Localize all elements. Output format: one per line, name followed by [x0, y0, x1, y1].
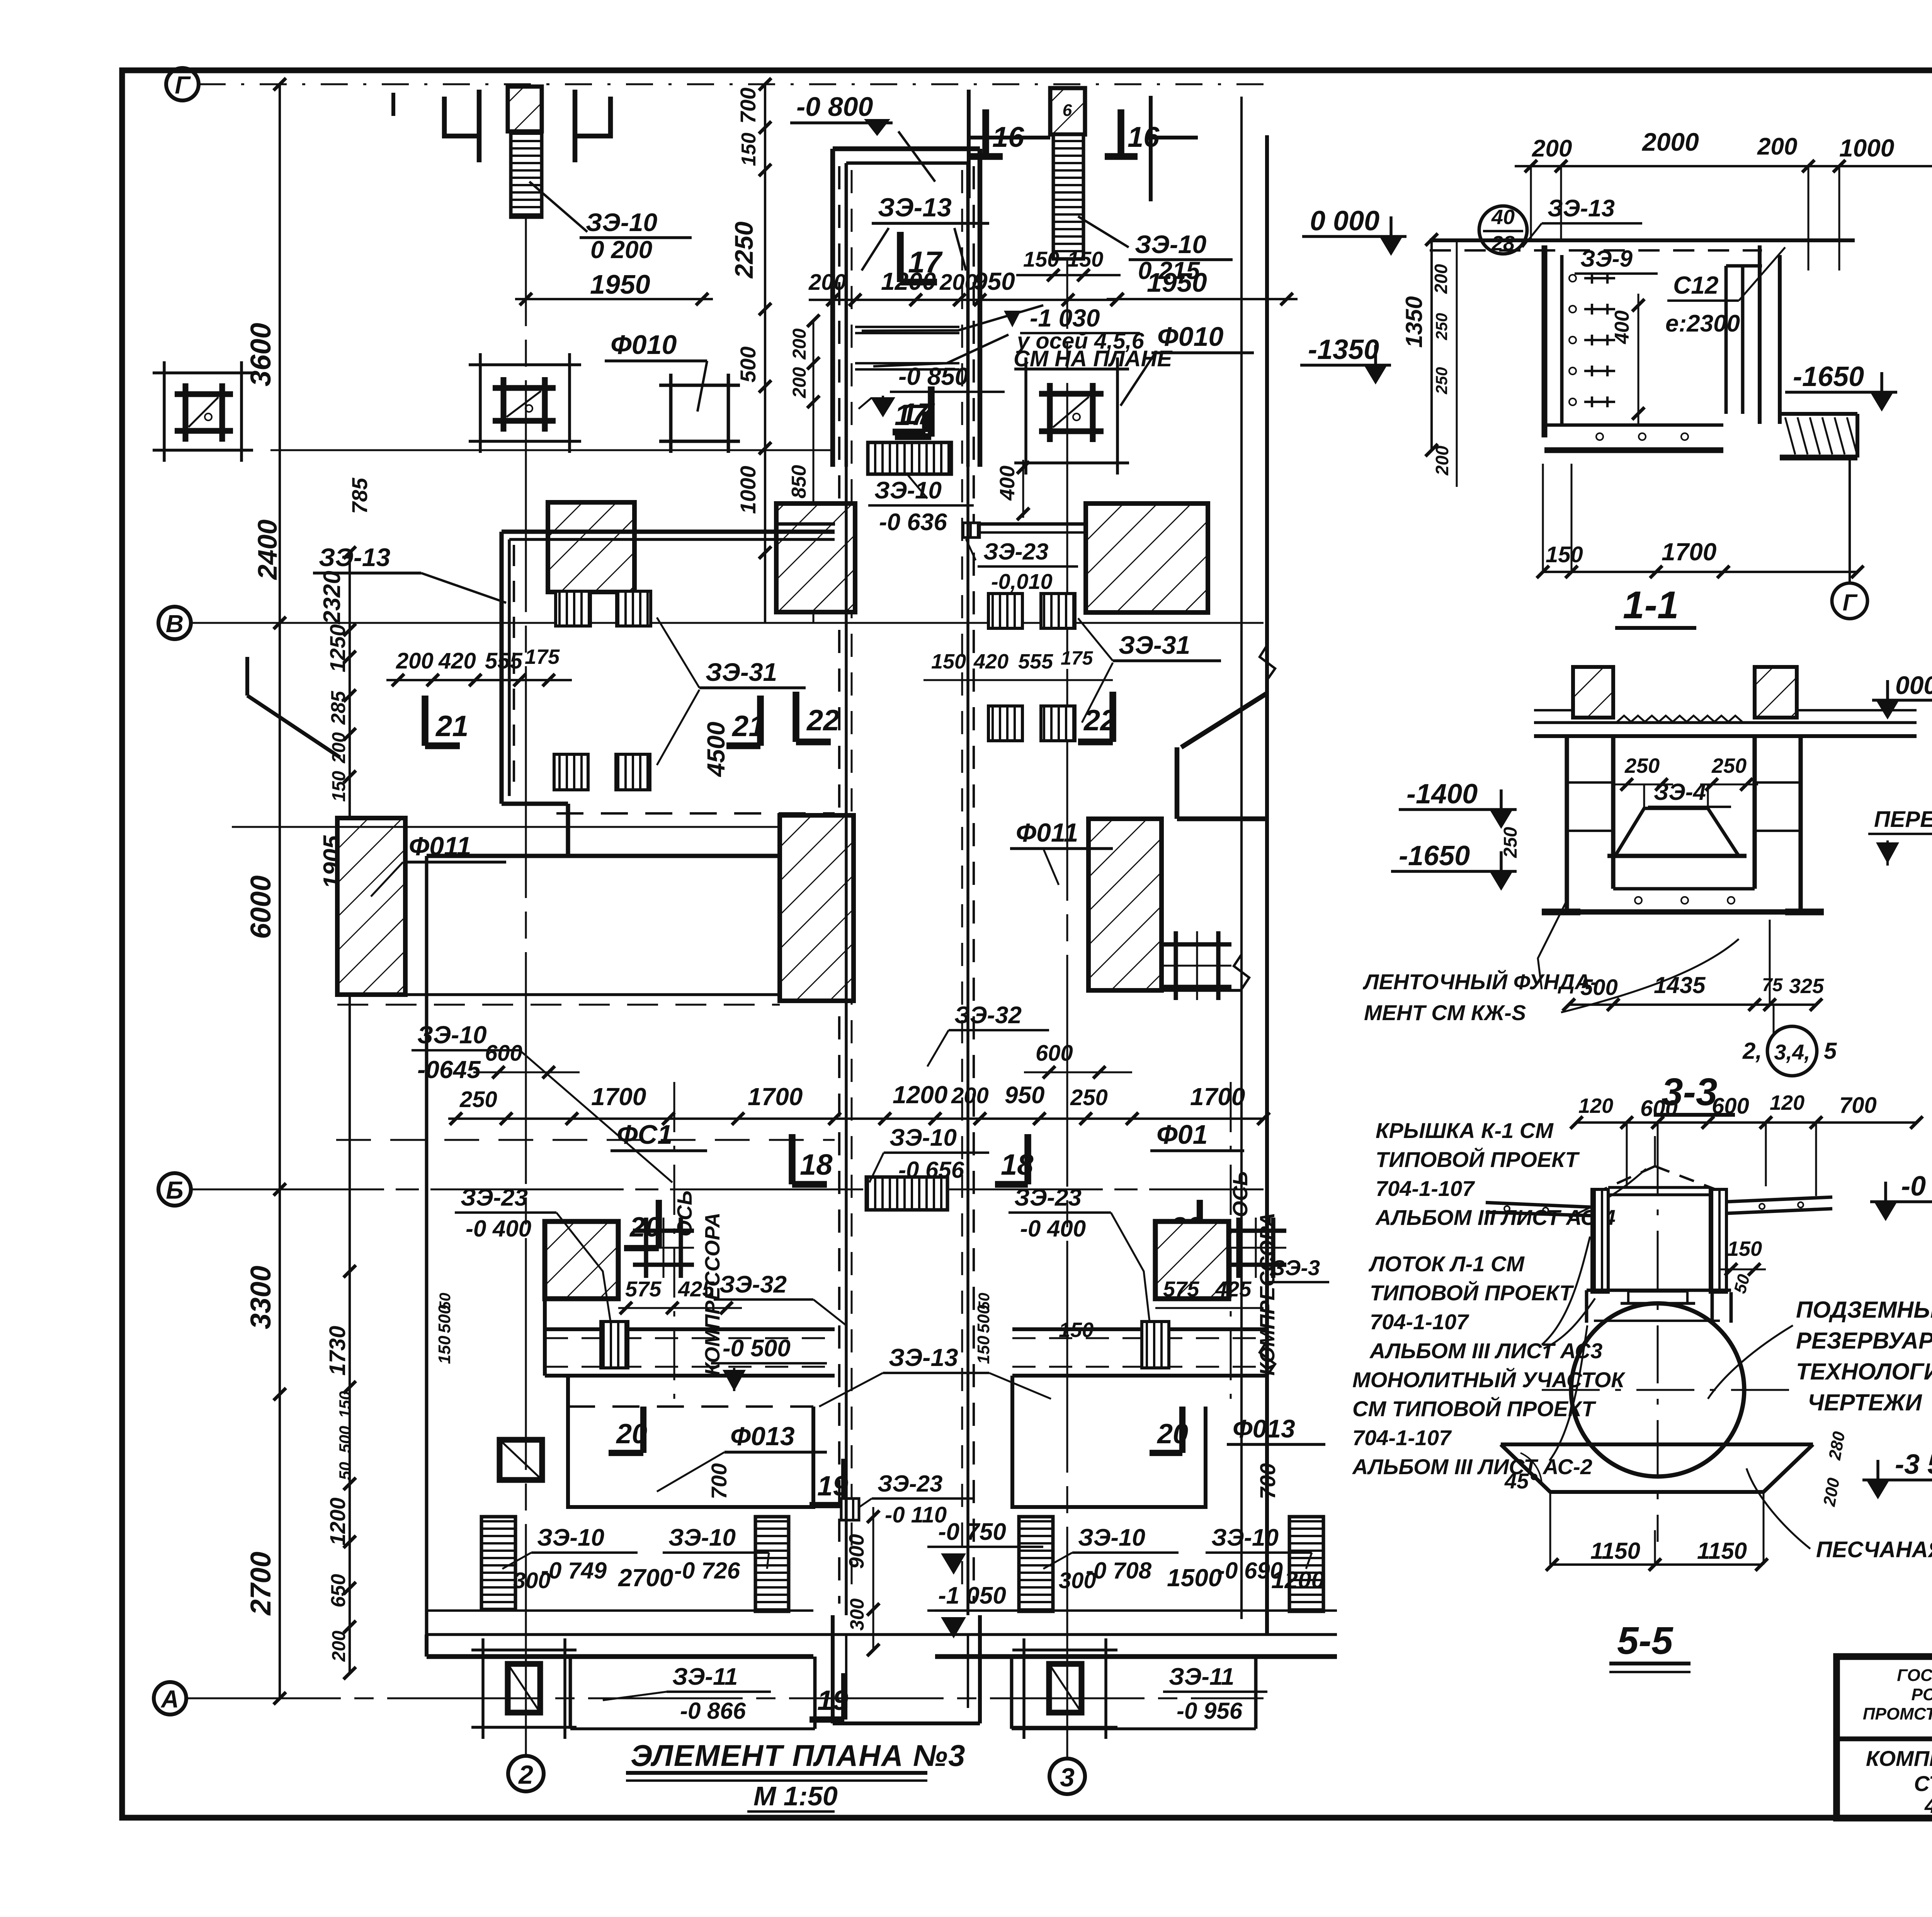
svg-text:200: 200 [329, 1631, 349, 1662]
svg-text:ЧЕРТЕЖИ: ЧЕРТЕЖИ [1808, 1390, 1923, 1415]
В band hatched rect far-left [548, 502, 634, 592]
5-5 top dims [1577, 1121, 1917, 1124]
column on axis 2 at Г (hatched) [508, 87, 542, 131]
svg-text:1000: 1000 [1839, 134, 1894, 162]
svg-text:50: 50 [437, 1293, 454, 1310]
axis В circle [158, 607, 191, 639]
svg-text:С12: С12 [1673, 271, 1718, 299]
hatched slab center [780, 815, 854, 1001]
svg-text:75: 75 [1762, 975, 1783, 995]
label ЗЭ-10 0 200 [529, 182, 587, 232]
svg-text:200: 200 [329, 732, 349, 764]
svg-text:Г: Г [1843, 590, 1858, 616]
5-5 dashed cover lines [1604, 1166, 1655, 1189]
svg-text:1950: 1950 [1147, 267, 1207, 298]
svg-text:ЗЭ-32: ЗЭ-32 [719, 1271, 787, 1298]
svg-text:250: 250 [459, 1087, 497, 1112]
svg-text:200: 200 [1532, 135, 1572, 162]
label ЗЭ-10 0 215 [1078, 216, 1129, 247]
svg-text:0 200: 0 200 [590, 236, 652, 264]
svg-text:-0,010: -0,010 [991, 569, 1053, 594]
svg-text:ФС1: ФС1 [617, 1119, 672, 1150]
axis Б circle [158, 1173, 191, 1206]
5-5 ground slabs [1486, 1203, 1592, 1207]
svg-text:250: 250 [1711, 754, 1747, 777]
right edge break marks [1260, 645, 1275, 680]
svg-text:700: 700 [736, 88, 760, 124]
small grate at trench bottom [841, 1499, 859, 1520]
svg-text:150: 150 [931, 650, 966, 673]
svg-text:150: 150 [1067, 247, 1103, 271]
Ф010 squares row - horizontal tie line [270, 449, 833, 451]
svg-text:-0645: -0645 [417, 1056, 481, 1084]
title block left split [1837, 1737, 1932, 1742]
svg-text:2320: 2320 [319, 571, 345, 624]
svg-text:СМ НА ПЛАНЕ: СМ НА ПЛАНЕ [1014, 346, 1173, 371]
svg-text:1200: 1200 [1271, 1567, 1325, 1594]
svg-text:18: 18 [800, 1148, 833, 1181]
section marker 17 top [897, 232, 904, 282]
outer dim chain x=724 [279, 84, 281, 1698]
step bracket right of column 2 [575, 97, 611, 136]
svg-text:ЗЭ-10: ЗЭ-10 [537, 1524, 604, 1551]
svg-text:0000: 0000 [1895, 671, 1932, 699]
svg-text:19: 19 [817, 1471, 848, 1502]
grate below column 3 [1053, 134, 1083, 259]
svg-text:500: 500 [736, 347, 760, 383]
lower rooms outline left [568, 1376, 813, 1507]
svg-text:700: 700 [1839, 1093, 1877, 1118]
section 1-1 top dims [1515, 165, 1932, 167]
3-3 axes 2 (3,4) 5 below [1773, 1005, 1775, 1036]
svg-text:2700: 2700 [618, 1564, 673, 1592]
section marks 16 [982, 109, 989, 156]
svg-text:-0 750: -0 750 [938, 1519, 1006, 1545]
1-1 rebar dots [1569, 275, 1576, 282]
svg-text:-3 500: -3 500 [1895, 1449, 1932, 1480]
axis 3 line [1066, 93, 1068, 1759]
svg-text:-1350: -1350 [1308, 334, 1379, 365]
svg-text:Ф011: Ф011 [1016, 818, 1078, 847]
svg-text:ЛЕНТОЧНЫЙ ФУНДА-: ЛЕНТОЧНЫЙ ФУНДА- [1362, 970, 1598, 994]
svg-text:150: 150 [1023, 247, 1059, 271]
svg-text:2400: 2400 [252, 519, 282, 580]
horizontal tie lines middle [232, 826, 502, 828]
right wing chamfer walls [1181, 693, 1267, 747]
bottom squares with X [508, 1664, 540, 1713]
svg-text:4500: 4500 [702, 722, 730, 777]
3-3 right hatched column [1755, 667, 1797, 718]
svg-text:700: 700 [1255, 1463, 1280, 1499]
-0500 strip right [1012, 1327, 1267, 1331]
svg-text:18: 18 [1001, 1148, 1034, 1181]
5-5 tank collar [1628, 1290, 1687, 1293]
svg-text:-1650: -1650 [1793, 361, 1864, 392]
svg-text:150: 150 [1546, 542, 1583, 567]
5-5 sand pit trapezoid [1501, 1442, 1813, 1446]
svg-text:300: 300 [1059, 1568, 1096, 1593]
inner dim chain x=905 [349, 553, 351, 1673]
svg-text:ПЕСЧАНАЯ ПОДУШКА: ПЕСЧАНАЯ ПОДУШКА [1816, 1537, 1932, 1562]
grate in trench ЗЭ-10 -0636 [868, 442, 951, 474]
svg-text:2000: 2000 [1641, 128, 1699, 156]
bottom rooms verticals [569, 1657, 572, 1729]
svg-text:ЗЭ-11: ЗЭ-11 [1169, 1664, 1234, 1690]
svg-text:МЕНТ СМ КЖ-S: МЕНТ СМ КЖ-S [1364, 1000, 1526, 1025]
svg-text:120: 120 [1578, 1094, 1613, 1118]
svg-text:150: 150 [1727, 1237, 1762, 1260]
5-5 center lines [1657, 1136, 1659, 1542]
svg-text:200: 200 [808, 270, 846, 295]
svg-text:ЗЭ-10: ЗЭ-10 [1135, 230, 1207, 259]
section marker 19 bottom [841, 1673, 847, 1720]
svg-text:-0 800: -0 800 [796, 92, 873, 122]
svg-text:ЗЭ-13: ЗЭ-13 [319, 543, 390, 572]
dim 1950 left [515, 298, 713, 300]
section marker 17 lower [928, 386, 935, 437]
3-3 bottom dims [1569, 1004, 1816, 1006]
svg-text:Г: Г [175, 71, 191, 99]
chain x=2105 (200/200/850) [813, 321, 815, 623]
left wing walls [502, 529, 835, 534]
svg-text:5-5: 5-5 [1617, 1619, 1673, 1662]
svg-text:704-1-107: 704-1-107 [1352, 1425, 1452, 1450]
left chamfer diagonal [247, 696, 340, 757]
grate strip bottom 4 [1289, 1517, 1323, 1611]
svg-text:1000: 1000 [736, 466, 760, 514]
svg-text:1150: 1150 [1590, 1538, 1640, 1564]
svg-text:ЗЭ-10: ЗЭ-10 [1078, 1524, 1145, 1551]
svg-text:1200: 1200 [325, 1497, 350, 1546]
section marker 19 top [841, 1459, 847, 1505]
svg-text:200: 200 [789, 328, 810, 360]
svg-text:ПОДЗЕМНЫЙ: ПОДЗЕМНЫЙ [1796, 1296, 1932, 1323]
svg-text:785: 785 [347, 478, 372, 514]
dim 1950 right [1107, 298, 1298, 300]
section marker 22 pair [1109, 692, 1116, 742]
5-5 bottom dims 1150 1150 [1552, 1563, 1762, 1566]
grate row base line [427, 1609, 813, 1612]
svg-text:150: 150 [1059, 1318, 1094, 1342]
svg-text:1150: 1150 [1697, 1538, 1747, 1564]
svg-text:420: 420 [973, 650, 1009, 673]
svg-text:ЗЭ-23: ЗЭ-23 [878, 1471, 942, 1497]
svg-text:-0 866: -0 866 [680, 1698, 746, 1724]
svg-text:ЗЭ-11: ЗЭ-11 [672, 1664, 738, 1690]
svg-text:1700: 1700 [1662, 538, 1716, 566]
svg-text:ЗЭ-13: ЗЭ-13 [878, 193, 952, 222]
svg-text:1730: 1730 [325, 1326, 350, 1376]
3-3 left hatched column [1573, 667, 1613, 718]
svg-text:e:2300: e:2300 [1665, 310, 1740, 337]
svg-text:555: 555 [1018, 650, 1053, 673]
trench lintel band lower [855, 362, 959, 364]
svg-text:17: 17 [895, 399, 929, 432]
axis А line [186, 1698, 1264, 1699]
svg-text:250: 250 [1070, 1085, 1108, 1110]
svg-text:3600: 3600 [245, 323, 277, 386]
svg-text:-0 636: -0 636 [879, 509, 947, 536]
svg-text:425: 425 [1215, 1277, 1252, 1301]
Ф010 assembly 3 [659, 384, 740, 387]
compressor axis dash-dot right [1230, 1082, 1232, 1399]
svg-text:ЗЭ-10: ЗЭ-10 [874, 477, 942, 504]
1-1 right wall [1758, 245, 1762, 424]
3-3 right wall [1752, 736, 1757, 889]
1-1 right inner wall [1725, 266, 1728, 414]
compressor axis dash-dot left [673, 1082, 675, 1399]
svg-text:1-1: 1-1 [1623, 583, 1679, 627]
trench right wall opening + small grate [963, 523, 980, 538]
svg-text:250: 250 [1432, 313, 1451, 340]
svg-text:ЗЭ-10: ЗЭ-10 [586, 208, 658, 236]
1-1 rebar marks ЗЭ-9 [1584, 277, 1615, 279]
1-1 bottom dims [1542, 571, 1857, 573]
svg-text:МОНОЛИТНЫЙ УЧАСТОК: МОНОЛИТНЫЙ УЧАСТОК [1352, 1368, 1626, 1392]
svg-text:285: 285 [327, 691, 350, 725]
svg-text:20: 20 [629, 1212, 661, 1243]
step brackets around column 3 [967, 90, 971, 198]
1-1 circled 40/28 [1479, 206, 1527, 254]
svg-text:-0 400: -0 400 [1020, 1216, 1086, 1242]
svg-text:М 1:50: М 1:50 [753, 1781, 838, 1811]
svg-text:250: 250 [1432, 367, 1451, 395]
1-1 top slab lines [1430, 238, 1855, 242]
hatch squares in strips [601, 1322, 628, 1368]
svg-text:ЗЭ-31: ЗЭ-31 [1119, 631, 1190, 659]
svg-text:2250: 2250 [730, 221, 758, 279]
svg-text:-1400: -1400 [1406, 779, 1478, 810]
svg-text:КОМПРЕССОРНАЯ: КОМПРЕССОРНАЯ [1866, 1746, 1932, 1771]
svg-text:ОСЬ: ОСЬ [1229, 1171, 1252, 1217]
svg-text:ЗЭ-32: ЗЭ-32 [954, 1002, 1022, 1029]
3-3 bottom slab [1613, 887, 1755, 891]
svg-text:ЗЭ-10: ЗЭ-10 [417, 1021, 487, 1049]
svg-text:-0 726: -0 726 [674, 1558, 740, 1584]
svg-text:1950: 1950 [590, 269, 650, 299]
svg-text:600: 600 [1640, 1096, 1678, 1121]
hatched slab right [1088, 819, 1162, 990]
svg-text:ГОССТРОЙ СССР: ГОССТРОЙ СССР [1897, 1665, 1932, 1685]
grid squares middle [633, 1228, 694, 1233]
svg-text:-0 956: -0 956 [1177, 1698, 1243, 1724]
svg-text:-0 110: -0 110 [885, 1502, 947, 1527]
section marker 18 pair [789, 1134, 796, 1184]
1-1 right footing hatched [1780, 412, 1857, 416]
svg-text:21: 21 [731, 710, 765, 743]
svg-text:ТЕХНОЛОГИЧЕСКИЕ: ТЕХНОЛОГИЧЕСКИЕ [1796, 1359, 1932, 1385]
svg-text:6000: 6000 [245, 875, 277, 939]
svg-text:150: 150 [974, 1335, 993, 1364]
svg-text:22: 22 [806, 704, 840, 737]
svg-text:СМ ТИПОВОЙ ПРОЕКТ: СМ ТИПОВОЙ ПРОЕКТ [1352, 1397, 1597, 1421]
column square Б right (hatched) [1155, 1221, 1229, 1299]
svg-text:ПРОМСТРОЙНИИПРОЕКТ: ПРОМСТРОЙНИИПРОЕКТ [1863, 1704, 1932, 1723]
svg-text:В: В [166, 610, 184, 638]
svg-text:650: 650 [327, 1574, 350, 1607]
grate strip bottom 3 [1019, 1517, 1053, 1611]
svg-text:850: 850 [788, 465, 810, 498]
1-1 bottom slab [1544, 424, 1723, 427]
axis 2 line [525, 93, 527, 1756]
svg-text:АЛЬБОМ III ЛИСТ АС3: АЛЬБОМ III ЛИСТ АС3 [1369, 1339, 1602, 1363]
trench bottom structure [831, 1615, 835, 1723]
section marker 20 bottom pair [640, 1407, 646, 1453]
svg-text:50: 50 [336, 1462, 354, 1480]
svg-text:Б: Б [166, 1176, 183, 1204]
svg-text:Ф013: Ф013 [1233, 1414, 1295, 1443]
svg-text:3,4,: 3,4, [1774, 1040, 1810, 1064]
svg-text:ЗЭ-23: ЗЭ-23 [1014, 1184, 1082, 1211]
svg-text:120: 120 [1770, 1091, 1804, 1114]
svg-text:40: 40 [1491, 206, 1515, 229]
svg-text:150: 150 [329, 771, 349, 802]
axis 3 circle [1049, 1759, 1085, 1794]
svg-text:ЗЭ-23: ЗЭ-23 [461, 1184, 528, 1211]
column on axis 3 at Г (hatched) [1050, 88, 1085, 134]
svg-text:200: 200 [789, 367, 810, 398]
svg-text:1350: 1350 [1401, 296, 1427, 348]
В band hatched rect left of trench [776, 503, 855, 612]
svg-text:ЗЭ-10: ЗЭ-10 [668, 1524, 736, 1551]
svg-text:Ф013: Ф013 [730, 1422, 795, 1451]
1-1 axis Г circle below [1849, 458, 1851, 583]
svg-text:РЕЗЕРВУАР СМ: РЕЗЕРВУАР СМ [1796, 1328, 1932, 1354]
svg-text:950: 950 [1005, 1082, 1044, 1109]
small dark square on axis2 above band [500, 1440, 542, 1480]
Ф010 assembly 2 (axis 2) [469, 363, 581, 366]
Ф010 assembly 1 (left border) [153, 371, 253, 374]
svg-text:ТИПОВОЙ ПРОЕКТ: ТИПОВОЙ ПРОЕКТ [1370, 1281, 1574, 1305]
svg-text:200: 200 [1431, 264, 1451, 294]
svg-text:200: 200 [939, 270, 977, 295]
svg-text:400: 400 [1611, 310, 1633, 344]
plan right edge verticals [1240, 97, 1243, 1619]
central trench top walls [833, 146, 980, 151]
svg-text:ЭЛЕМЕНТ ПЛАНА №3: ЭЛЕМЕНТ ПЛАНА №3 [631, 1738, 966, 1772]
svg-text:АЛЬБОМ III ЛИСТ АС-4: АЛЬБОМ III ЛИСТ АС-4 [1375, 1205, 1616, 1230]
svg-text:Ф01: Ф01 [1156, 1119, 1208, 1150]
grate strip bottom 1 [481, 1517, 515, 1609]
svg-text:575: 575 [1163, 1277, 1199, 1301]
svg-text:600: 600 [1712, 1094, 1749, 1119]
svg-text:21: 21 [435, 710, 469, 743]
5-5 mid platform [1587, 1289, 1731, 1292]
svg-text:4К-500А: 4К-500А [1924, 1793, 1932, 1818]
svg-text:-1650: -1650 [1399, 840, 1470, 871]
svg-text:704-1-107: 704-1-107 [1370, 1310, 1469, 1334]
-0500 strip left (lath band) [545, 1327, 835, 1331]
svg-text:0 000: 0 000 [1310, 206, 1379, 236]
svg-text:325: 325 [1789, 975, 1824, 998]
svg-text:900: 900 [845, 1534, 868, 1569]
svg-text:700: 700 [707, 1463, 731, 1499]
svg-text:-0 500: -0 500 [723, 1335, 791, 1362]
svg-text:СТАНЦИЯ: СТАНЦИЯ [1914, 1771, 1932, 1796]
3-3 lintel trapezoid ЗЭ-4 [1615, 808, 1739, 856]
step bracket left of column 2 [444, 97, 479, 136]
svg-text:250: 250 [1500, 827, 1521, 858]
svg-text:Ф010: Ф010 [611, 330, 677, 360]
3-3 top slab lines [1534, 721, 1917, 724]
svg-text:-0 749: -0 749 [541, 1558, 607, 1584]
svg-text:1200: 1200 [881, 267, 936, 295]
svg-text:А: А [160, 1685, 179, 1713]
top-right inner chain x=1980 [764, 84, 766, 623]
axis Г line (dashed) [199, 83, 1264, 85]
svg-text:1700: 1700 [748, 1083, 803, 1111]
svg-text:500: 500 [1580, 975, 1618, 1000]
section marker 21 pair [422, 696, 429, 746]
svg-text:200: 200 [951, 1083, 989, 1108]
section marker 20 top-right [1197, 1200, 1203, 1248]
svg-text:175: 175 [1061, 647, 1094, 669]
3-3 footing ticks [1542, 908, 1580, 915]
svg-text:РОСТОВСКИЙ: РОСТОВСКИЙ [1912, 1684, 1932, 1704]
3-3 serrated grate between columns [1617, 716, 1742, 722]
svg-text:200: 200 [1757, 133, 1797, 160]
grate strip bottom 2 [755, 1517, 789, 1611]
right wing grate squares [988, 594, 1022, 628]
trench lintel band upper [855, 326, 959, 328]
axis Б line [191, 1189, 1264, 1191]
svg-text:2: 2 [518, 1760, 533, 1789]
svg-text:20: 20 [616, 1419, 647, 1449]
section marker 20 top-left [656, 1200, 662, 1248]
3-3 left wall [1565, 736, 1569, 912]
svg-text:5: 5 [1824, 1038, 1837, 1064]
svg-text:1200: 1200 [893, 1081, 947, 1109]
column square Б left (hatched) [545, 1221, 618, 1299]
svg-text:АЛЬБОМ III ЛИСТ АС-2: АЛЬБОМ III ЛИСТ АС-2 [1352, 1454, 1592, 1479]
svg-text:КОМПРЕССОРА: КОМПРЕССОРА [1256, 1213, 1279, 1376]
svg-text:ЗЭ-9: ЗЭ-9 [1580, 246, 1633, 272]
hatched slab left [337, 818, 405, 995]
svg-text:ЗЭ-10: ЗЭ-10 [889, 1124, 957, 1151]
svg-text:425: 425 [678, 1277, 714, 1301]
svg-text:600: 600 [1036, 1041, 1073, 1066]
svg-text:200: 200 [396, 648, 434, 674]
grate in trench ЗЭ-10 -0656 [866, 1177, 947, 1210]
svg-text:-1 030: -1 030 [1030, 304, 1100, 332]
svg-text:-1 050: -1 050 [938, 1582, 1006, 1609]
trench wall dashed lines [838, 166, 840, 1604]
svg-text:ЗЭ-13: ЗЭ-13 [889, 1344, 958, 1371]
lower rooms outline right [1012, 1376, 1206, 1507]
svg-text:400: 400 [996, 466, 1019, 501]
svg-text:-0 850: -0 850 [898, 362, 968, 390]
svg-text:ТИПОВОЙ ПРОЕКТ: ТИПОВОЙ ПРОЕКТ [1376, 1147, 1580, 1172]
svg-text:-0 400: -0 400 [466, 1216, 531, 1242]
bottom wall band [427, 1633, 1337, 1636]
svg-text:ЗЭ-31: ЗЭ-31 [706, 658, 777, 686]
axis В line [191, 622, 1264, 624]
svg-text:Ф011: Ф011 [409, 832, 471, 861]
svg-text:1250: 1250 [325, 624, 350, 672]
svg-text:175: 175 [525, 645, 560, 668]
svg-text:1700: 1700 [1190, 1083, 1245, 1111]
axis А circle [154, 1682, 186, 1715]
axis 2 circle [508, 1756, 544, 1791]
svg-text:575: 575 [625, 1277, 662, 1301]
svg-text:555: 555 [485, 648, 523, 674]
svg-text:20: 20 [1156, 1419, 1188, 1449]
svg-text:250: 250 [1624, 754, 1660, 777]
svg-text:950: 950 [974, 267, 1015, 295]
svg-text:704-1-107: 704-1-107 [1376, 1176, 1475, 1201]
svg-text:ЗЭ-23: ЗЭ-23 [983, 539, 1048, 565]
svg-text:ЗЭ-3: ЗЭ-3 [1271, 1255, 1320, 1280]
